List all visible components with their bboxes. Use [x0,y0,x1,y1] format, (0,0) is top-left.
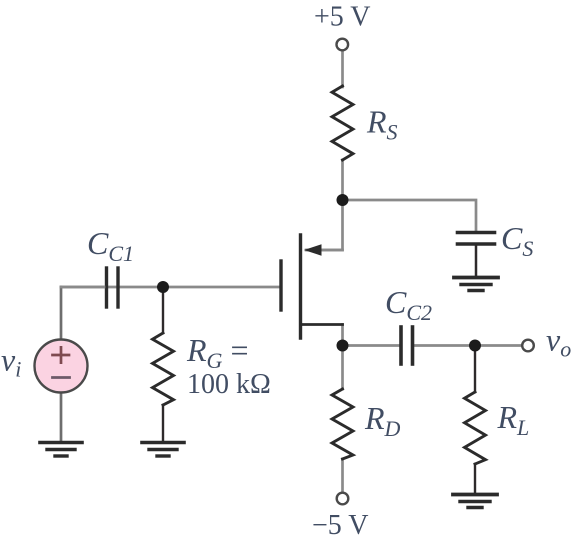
svg-text:vi: vi [1,342,21,382]
wire: drain node right to CC2 [343,344,400,347]
svg-text:CC2: CC2 [385,284,432,325]
wire: source node right to CS branch [343,200,477,231]
svg-text:RD: RD [364,400,401,441]
svg-text:RL: RL [497,399,530,440]
transistor source terminal with arrow [307,249,343,252]
resistor RS [332,86,353,160]
ground: under RG [142,443,184,457]
svg-text:+5 V: +5 V [314,2,371,33]
wire: RG node down to RG [162,287,164,333]
resistor RD [332,389,353,459]
terminal: -5V open circle [337,493,349,505]
transistor Q1 (PMOS) [281,235,343,338]
wire: vi source top [60,287,63,340]
wire: output node down to RL [474,346,476,393]
resistor RL [465,392,486,464]
wire: +5V terminal to RS top [341,51,344,87]
wire: gate node to transistor gate [61,286,279,289]
wire: vi to CC1 left plate [61,286,104,289]
node: drain node [337,340,349,352]
wire: RL bottom to ground [474,464,476,493]
capacitor CC2 [401,327,413,364]
source vi [35,340,88,393]
wire: transistor drain down to drain node [341,325,344,346]
svg-text:vo: vo [546,322,571,362]
terminal: vo open circle [522,340,534,352]
node: output node [469,340,481,352]
svg-text:RS: RS [366,104,398,145]
svg-text:CC1: CC1 [87,225,134,266]
node: gate node [157,281,169,293]
wire: RG bottom to ground [162,405,164,441]
transistor drain terminal [302,323,343,326]
terminal: +5V open circle [337,39,349,51]
wire: RD bottom to -5V terminal [341,459,344,492]
node: source node [337,194,349,206]
svg-text:RG =: RG = [186,332,248,373]
wire: CS bottom plate to ground [475,246,478,278]
ground: under RL [453,495,497,508]
transistor channel line [299,235,302,338]
resistor RG [153,333,174,405]
wire: drain node down to RD [341,346,344,390]
capacitor CC1 [107,268,119,307]
wire: source node down and left to transistor source arrow [306,200,343,250]
svg-text:CS: CS [501,220,533,261]
wire: CC2 to output node to vo terminal [414,344,522,347]
wire: RS bottom to source node [341,160,344,200]
svg-text:100 kΩ: 100 kΩ [187,369,271,400]
svg-text:−5 V: −5 V [312,510,369,541]
transistor gate bar [279,261,282,310]
wire: vi source bottom to ground [60,393,63,441]
capacitor CS [458,233,495,245]
ground: under vi [40,443,82,457]
ground: under CS [454,278,498,291]
